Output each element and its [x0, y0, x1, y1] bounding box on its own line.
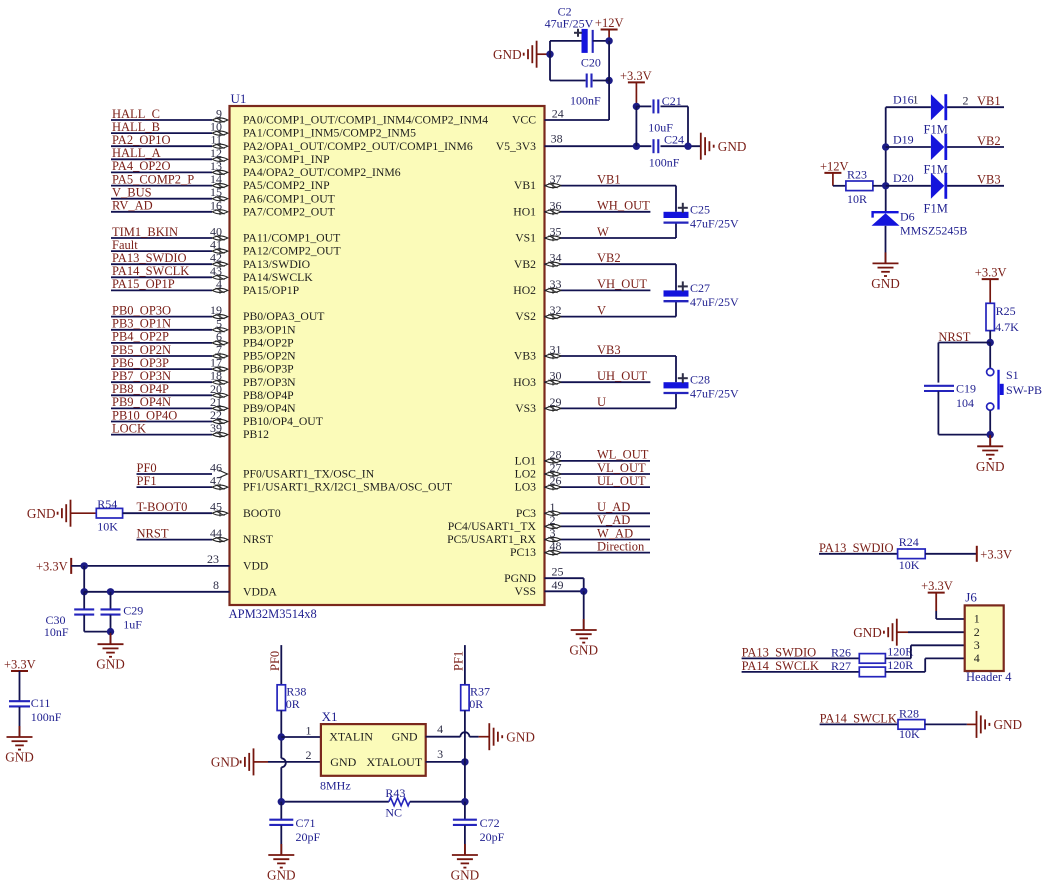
capacitor C30 10nF	[44, 592, 111, 639]
svg-text:47: 47	[210, 474, 222, 488]
svg-text:R54: R54	[97, 497, 117, 511]
svg-text:W: W	[597, 225, 609, 239]
ground below S1	[976, 435, 1005, 474]
crystal X1 8MHz body	[320, 709, 426, 792]
svg-text:PA5_COMP2_P: PA5_COMP2_P	[112, 172, 194, 186]
svg-text:Header 4: Header 4	[966, 670, 1012, 684]
svg-text:HO3: HO3	[513, 376, 536, 389]
U1 pin wire net V	[545, 301, 677, 320]
resistor R25 4.7K	[986, 303, 1019, 346]
svg-text:21: 21	[210, 395, 222, 409]
svg-text:X1: X1	[322, 709, 338, 724]
svg-text:19: 19	[210, 303, 222, 317]
U1 pin 16 wire / net RV_AD	[111, 198, 228, 215]
svg-text:16: 16	[210, 198, 222, 212]
svg-text:VDD: VDD	[243, 560, 268, 573]
svg-text:BOOT0: BOOT0	[243, 507, 281, 520]
U1 pin 28 wire / net WL_OUT	[545, 447, 651, 464]
svg-text:5: 5	[216, 316, 222, 330]
U1 pin 3 wire / net W_AD	[545, 526, 651, 543]
svg-text:GND: GND	[27, 506, 56, 521]
U1 pin 18 wire / net PB7_OP3N	[111, 369, 228, 386]
svg-text:PA3/COMP1_INP: PA3/COMP1_INP	[243, 153, 330, 166]
U1 pin wire net VH_OUT	[545, 277, 651, 294]
svg-text:PC13: PC13	[510, 546, 536, 559]
svg-text:4.7K: 4.7K	[995, 320, 1019, 334]
power +3.3V at J6 pin 1	[921, 579, 965, 619]
svg-text:D20: D20	[893, 171, 914, 185]
capacitor C2 47uF/25V polarized	[545, 5, 610, 53]
svg-text:+3.3V: +3.3V	[620, 69, 652, 83]
svg-text:VS2: VS2	[515, 310, 536, 323]
svg-text:1: 1	[974, 612, 980, 626]
svg-text:4: 4	[974, 651, 980, 665]
svg-text:UH_OUT: UH_OUT	[597, 369, 647, 383]
svg-text:GND: GND	[506, 729, 535, 744]
ground at X1 pin 2	[211, 748, 321, 775]
svg-text:PB12: PB12	[243, 428, 269, 441]
svg-text:XTALOUT: XTALOUT	[366, 755, 422, 769]
U1 pin 7 wire / net PB5_OP2N	[111, 343, 228, 360]
svg-text:PA13_SWDIO: PA13_SWDIO	[112, 251, 187, 265]
svg-text:1: 1	[550, 500, 556, 514]
U1 pin 20 wire / net PB8_OP4P	[111, 382, 228, 399]
wire hop over X1 pin2 wire	[281, 758, 286, 801]
resistor R43 NC	[278, 786, 469, 820]
U1 pin 5 wire / net PB3_OP1N	[111, 316, 228, 333]
svg-text:47uF/25V: 47uF/25V	[545, 16, 594, 30]
svg-text:10: 10	[210, 120, 222, 134]
svg-text:LO1: LO1	[515, 455, 537, 468]
svg-text:120R: 120R	[887, 658, 913, 672]
svg-text:3: 3	[437, 747, 443, 761]
svg-text:VH_OUT: VH_OUT	[597, 277, 647, 291]
U1 pin 13 wire / net PA4_OP2O	[111, 159, 228, 176]
svg-text:R25: R25	[996, 304, 1016, 318]
ground at J6 pin 2	[853, 619, 964, 646]
svg-text:S1: S1	[1006, 368, 1019, 382]
svg-text:R24: R24	[899, 535, 919, 549]
ground below C71	[267, 844, 296, 883]
svg-text:47uF/25V: 47uF/25V	[690, 387, 739, 401]
svg-text:45: 45	[210, 500, 222, 514]
svg-text:PA1/COMP1_INM5/COMP2_INM5: PA1/COMP1_INM5/COMP2_INM5	[243, 127, 416, 140]
svg-text:PB5/OP2N: PB5/OP2N	[243, 350, 296, 363]
svg-text:PB10/OP4_OUT: PB10/OP4_OUT	[243, 415, 323, 428]
svg-text:48: 48	[550, 539, 562, 553]
resistor R37 0R	[461, 684, 490, 801]
svg-text:VB2: VB2	[597, 251, 621, 265]
svg-text:8MHz: 8MHz	[320, 778, 351, 792]
svg-text:32: 32	[550, 303, 562, 317]
svg-text:VB2: VB2	[977, 134, 1001, 148]
svg-text:HALL_C: HALL_C	[112, 107, 160, 121]
power +12V at R23	[820, 159, 849, 185]
capacitor C29 1uF	[101, 592, 144, 636]
svg-text:GND: GND	[994, 717, 1023, 732]
capacitor C21 10uF	[633, 94, 688, 146]
svg-text:PF0/USART1_TX/OSC_IN: PF0/USART1_TX/OSC_IN	[243, 468, 375, 481]
svg-text:29: 29	[550, 395, 562, 409]
svg-text:LO3: LO3	[515, 481, 537, 494]
power +3.3V at R25	[975, 266, 1007, 304]
zener diode D6 MMSZ5245B	[872, 209, 968, 263]
svg-text:R27: R27	[831, 659, 851, 673]
svg-text:104: 104	[956, 396, 974, 410]
svg-text:PA11/COMP1_OUT: PA11/COMP1_OUT	[243, 232, 340, 245]
svg-text:PB4/OP2P: PB4/OP2P	[243, 337, 294, 350]
svg-text:23: 23	[207, 552, 219, 566]
svg-text:LOCK: LOCK	[112, 421, 146, 435]
U1 pin 41 wire / net Fault	[111, 238, 228, 255]
svg-text:25: 25	[552, 565, 564, 579]
svg-text:27: 27	[550, 461, 562, 475]
svg-text:20: 20	[210, 382, 222, 396]
svg-text:PA2_OP1O: PA2_OP1O	[112, 133, 171, 147]
svg-text:1: 1	[306, 723, 312, 737]
svg-text:PF1: PF1	[452, 651, 466, 671]
svg-text:GND: GND	[853, 625, 882, 640]
power +3.3V right of R24	[977, 546, 1012, 562]
svg-text:GND: GND	[718, 139, 747, 154]
svg-text:31: 31	[550, 343, 562, 357]
svg-text:17: 17	[210, 356, 222, 370]
resistor R54 10K	[96, 497, 122, 533]
svg-text:UL_OUT: UL_OUT	[597, 474, 646, 488]
svg-text:GND: GND	[96, 657, 125, 672]
svg-text:40: 40	[210, 225, 222, 239]
svg-text:PA15/OP1P: PA15/OP1P	[243, 284, 300, 297]
svg-text:PGND: PGND	[504, 572, 536, 585]
U1 pin wire net VB1	[545, 172, 677, 212]
switch S1 SW-PB	[987, 343, 1042, 435]
svg-text:49: 49	[552, 578, 564, 592]
svg-text:GND: GND	[330, 755, 356, 769]
header J6 Header 4	[965, 589, 1013, 683]
resistor R24 10K	[898, 535, 977, 572]
svg-text:Fault: Fault	[112, 238, 138, 252]
svg-text:PB8/OP4P: PB8/OP4P	[243, 389, 294, 402]
svg-text:41: 41	[210, 238, 222, 252]
svg-text:33: 33	[550, 277, 562, 291]
ground below U1 VSS	[569, 591, 598, 657]
capacitor C72 20pF	[453, 802, 505, 855]
svg-text:20pF: 20pF	[480, 830, 505, 844]
svg-text:NRST: NRST	[137, 526, 169, 540]
svg-text:PB9_OP4N: PB9_OP4N	[112, 395, 171, 409]
power +12V	[595, 16, 624, 41]
U1 pin 27 wire / net VL_OUT	[545, 461, 651, 478]
svg-text:VB1: VB1	[514, 179, 536, 192]
U1 pin 24 wire VCC	[545, 107, 610, 121]
svg-text:100nF: 100nF	[31, 710, 62, 724]
U1 right pin names column	[447, 114, 536, 598]
U1 pin 10 wire / net HALL_B	[111, 120, 228, 137]
U1 pin 9 wire / net HALL_C	[111, 107, 228, 124]
svg-text:PA4/OPA2_OUT/COMP2_INM6: PA4/OPA2_OUT/COMP2_INM6	[243, 166, 401, 179]
svg-text:4: 4	[437, 722, 443, 736]
svg-text:PA14_SWCLK: PA14_SWCLK	[112, 264, 189, 278]
svg-text:3: 3	[974, 638, 980, 652]
capacitor C11 100nF	[9, 671, 62, 737]
svg-text:PF0: PF0	[268, 651, 282, 671]
svg-text:GND: GND	[392, 730, 418, 744]
svg-text:2: 2	[963, 94, 969, 108]
svg-text:F1M: F1M	[924, 201, 948, 215]
ground symbol right of C24	[701, 133, 747, 160]
svg-text:120R: 120R	[887, 645, 913, 659]
ground right of X1 pin 4	[489, 723, 535, 750]
svg-text:PA4_OP2O: PA4_OP2O	[112, 159, 171, 173]
svg-text:GND: GND	[5, 750, 34, 765]
U1 pin 26 wire / net UL_OUT	[545, 474, 651, 491]
svg-text:PA15_OP1P: PA15_OP1P	[112, 277, 175, 291]
svg-text:26: 26	[550, 474, 562, 488]
svg-text:12: 12	[210, 146, 222, 160]
wire net NRST	[938, 330, 990, 383]
svg-text:V_AD: V_AD	[597, 513, 630, 527]
svg-text:D19: D19	[893, 132, 914, 146]
svg-text:R26: R26	[831, 646, 851, 660]
svg-text:VB3: VB3	[977, 173, 1001, 187]
svg-text:F1M: F1M	[924, 123, 948, 137]
resistor R23 10R	[846, 168, 886, 207]
svg-text:C72: C72	[480, 816, 500, 830]
ground below C72	[451, 844, 480, 883]
capacitor C25 47uF/25V polarized	[664, 202, 740, 230]
svg-text:VB2: VB2	[514, 258, 536, 271]
svg-text:Direction: Direction	[597, 539, 645, 553]
svg-text:PB10_OP4O: PB10_OP4O	[112, 408, 177, 422]
svg-text:44: 44	[210, 526, 222, 540]
U1 pin 6 wire / net PB4_OP2P	[111, 329, 228, 346]
svg-text:V_BUS: V_BUS	[112, 186, 152, 200]
svg-text:U: U	[597, 395, 606, 409]
svg-text:46: 46	[210, 461, 222, 475]
node VCC junctions	[605, 37, 612, 120]
svg-text:C25: C25	[690, 202, 710, 216]
X1 pin 3 wire	[426, 747, 469, 765]
U1 pin 46 wire / net PF0	[137, 461, 228, 479]
svg-text:GND: GND	[211, 755, 240, 770]
svg-text:VB3: VB3	[514, 350, 536, 363]
svg-text:C20: C20	[581, 55, 601, 69]
ground below D6	[871, 252, 900, 291]
svg-text:22: 22	[210, 408, 222, 422]
U1 pin 4 wire / net PA15_OP1P	[111, 277, 228, 294]
capacitor C27 47uF/25V polarized	[664, 281, 740, 309]
capacitor C24 100nF	[649, 132, 701, 169]
svg-text:6: 6	[216, 329, 222, 343]
U1 pin 17 wire / net PB6_OP3P	[111, 356, 228, 373]
resistor R27 120R	[831, 658, 965, 677]
U1 pin 49 wire VSS	[545, 578, 588, 595]
svg-text:30: 30	[550, 369, 562, 383]
U1 pin 39 wire / net LOCK	[111, 421, 228, 438]
svg-text:PA13/SWDIO: PA13/SWDIO	[243, 258, 310, 271]
capacitor C19 104	[924, 382, 976, 435]
svg-text:PA12/COMP2_OUT: PA12/COMP2_OUT	[243, 245, 341, 258]
U1 pin wire net WH_OUT	[545, 198, 651, 215]
svg-text:9: 9	[216, 107, 222, 121]
svg-text:100nF: 100nF	[570, 93, 601, 107]
svg-text:D16: D16	[893, 93, 914, 107]
svg-text:VCC: VCC	[512, 114, 536, 127]
svg-text:13: 13	[210, 159, 222, 173]
svg-text:R43: R43	[385, 786, 405, 800]
svg-text:PB0/OPA3_OUT: PB0/OPA3_OUT	[243, 310, 324, 323]
U1 pin 11 wire / net PA2_OP1O	[111, 133, 228, 150]
svg-text:PC3: PC3	[516, 507, 536, 520]
svg-text:37: 37	[550, 172, 562, 186]
U1 pin 1 wire / net U_AD	[545, 500, 651, 517]
resistor R38 0R	[277, 684, 306, 711]
svg-text:+3.3V: +3.3V	[980, 547, 1012, 561]
svg-text:11: 11	[210, 133, 222, 147]
svg-text:+12V: +12V	[595, 16, 624, 30]
wire C2/C20 left rail	[546, 41, 585, 81]
svg-text:+3.3V: +3.3V	[921, 579, 953, 593]
svg-text:PB4_OP2P: PB4_OP2P	[112, 330, 169, 344]
svg-text:1uF: 1uF	[123, 617, 142, 631]
U1 pin wire net VB2	[545, 251, 677, 291]
svg-text:PC4/USART1_TX: PC4/USART1_TX	[448, 520, 537, 533]
svg-text:GND: GND	[976, 459, 1005, 474]
svg-text:VSS: VSS	[515, 585, 536, 598]
svg-text:PB6_OP3P: PB6_OP3P	[112, 356, 169, 370]
capacitor C71 20pF	[269, 802, 320, 855]
U1 pin 23 wire VDD	[71, 552, 229, 570]
U1 pin 48 wire / net Direction	[545, 539, 651, 556]
U1 pin 15 wire / net V_BUS	[111, 185, 228, 202]
svg-text:38: 38	[551, 131, 563, 145]
net label PF1 vertical	[452, 645, 466, 685]
svg-text:PF1: PF1	[137, 474, 157, 488]
svg-text:RV_AD: RV_AD	[112, 199, 153, 213]
svg-text:0R: 0R	[286, 697, 300, 711]
U1 pin 21 wire / net PB9_OP4N	[111, 395, 228, 412]
resistor R26 120R	[831, 645, 965, 664]
svg-text:2: 2	[974, 625, 980, 639]
svg-text:28: 28	[550, 447, 562, 461]
ground below C29	[96, 632, 125, 672]
svg-text:V5_3V3: V5_3V3	[496, 140, 536, 153]
svg-text:47uF/25V: 47uF/25V	[690, 295, 739, 309]
svg-text:LO2: LO2	[515, 468, 537, 481]
svg-text:PA6/COMP1_OUT: PA6/COMP1_OUT	[243, 192, 335, 205]
svg-text:10nF: 10nF	[44, 625, 69, 639]
power +3.3V at C21	[620, 69, 652, 106]
svg-text:XTALIN: XTALIN	[329, 730, 373, 744]
U1 pin 45 wire / net T-BOOT0	[123, 500, 228, 517]
U1 pin 2 wire / net V_AD	[545, 513, 651, 530]
svg-text:PB5_OP2N: PB5_OP2N	[112, 343, 171, 357]
U1 pin 14 wire / net PA5_COMP2_P	[111, 172, 228, 189]
svg-text:100nF: 100nF	[649, 156, 680, 170]
svg-text:C27: C27	[690, 281, 710, 295]
svg-text:HALL_A: HALL_A	[112, 146, 161, 160]
svg-text:36: 36	[550, 198, 562, 212]
svg-text:3: 3	[550, 526, 556, 540]
svg-text:PF1/USART1_RX/I2C1_SMBA/OSC_OU: PF1/USART1_RX/I2C1_SMBA/OSC_OUT	[243, 481, 452, 494]
svg-text:2: 2	[550, 513, 556, 527]
svg-text:VDDA: VDDA	[243, 585, 277, 598]
net PA13_SWDIO to R24	[819, 541, 898, 555]
U1 pin 38 wire V5_3V3	[545, 106, 652, 149]
svg-text:PA5/COMP2_INP: PA5/COMP2_INP	[243, 179, 330, 192]
U1 pin 44 wire / net NRST	[137, 526, 228, 543]
svg-text:C21: C21	[662, 94, 682, 108]
svg-text:7: 7	[216, 343, 222, 357]
svg-text:PA2/OPA1_OUT/COMP2_OUT/COMP1_I: PA2/OPA1_OUT/COMP2_OUT/COMP1_INM6	[243, 140, 473, 153]
svg-text:GND: GND	[493, 47, 522, 62]
svg-text:GND: GND	[871, 276, 900, 291]
U1 pin wire net U	[545, 393, 677, 412]
ground below C11	[5, 726, 34, 765]
svg-text:+3.3V: +3.3V	[975, 266, 1007, 280]
svg-text:C29: C29	[123, 604, 143, 618]
net PA14_SWCLK to R27	[742, 659, 860, 673]
diode D19 F1M	[886, 132, 1004, 176]
svg-text:10K: 10K	[899, 558, 920, 572]
svg-text:D6: D6	[900, 209, 915, 223]
capacitor C20 100nF	[570, 55, 609, 107]
svg-text:GND: GND	[267, 868, 296, 883]
X1 pin 4 wire to ground	[426, 722, 490, 737]
diode D16 F1M	[886, 93, 1004, 137]
svg-text:PB8_OP4P: PB8_OP4P	[112, 382, 169, 396]
svg-text:HO1: HO1	[513, 205, 536, 218]
svg-text:8: 8	[213, 578, 219, 592]
svg-text:WL_OUT: WL_OUT	[597, 448, 649, 462]
svg-text:NRST: NRST	[243, 533, 273, 546]
svg-text:PB9/OP4N: PB9/OP4N	[243, 402, 296, 415]
svg-text:10K: 10K	[97, 519, 118, 533]
U1 left pin names column	[243, 114, 488, 599]
svg-text:PB3/OP1N: PB3/OP1N	[243, 323, 296, 336]
svg-text:PA13_SWDIO: PA13_SWDIO	[819, 541, 894, 555]
svg-text:C71: C71	[296, 816, 316, 830]
svg-text:HO2: HO2	[513, 284, 536, 297]
svg-text:PB3_OP1N: PB3_OP1N	[112, 317, 171, 331]
power +3.3V at VDD	[36, 558, 71, 574]
U1 pin wire net VB3	[545, 343, 677, 383]
wire diode bus vertical	[882, 107, 889, 212]
IC U1 APM32M3514x8 body	[229, 91, 545, 621]
svg-text:+12V: +12V	[820, 159, 849, 173]
svg-text:PF0: PF0	[137, 461, 157, 475]
svg-text:C11: C11	[31, 696, 51, 710]
svg-text:4: 4	[216, 277, 222, 291]
svg-text:42: 42	[210, 251, 222, 265]
svg-text:10K: 10K	[899, 727, 920, 741]
svg-text:VS1: VS1	[515, 232, 536, 245]
wire R38 to X1 pin 1	[278, 711, 321, 759]
svg-text:47uF/25V: 47uF/25V	[690, 216, 739, 230]
svg-text:W_AD: W_AD	[597, 526, 633, 540]
svg-text:VB1: VB1	[597, 172, 621, 186]
svg-text:TIM1_BKIN: TIM1_BKIN	[112, 225, 178, 239]
svg-text:U_AD: U_AD	[597, 500, 630, 514]
svg-text:PB6/OP3P: PB6/OP3P	[243, 363, 294, 376]
svg-text:C19: C19	[956, 382, 976, 396]
net label PF0 vertical	[268, 645, 282, 685]
svg-text:PB7/OP3N: PB7/OP3N	[243, 376, 296, 389]
svg-text:+3.3V: +3.3V	[4, 657, 36, 671]
ground symbol at C2	[493, 41, 550, 68]
svg-text:HALL_B: HALL_B	[112, 120, 160, 134]
svg-text:10R: 10R	[847, 192, 867, 206]
